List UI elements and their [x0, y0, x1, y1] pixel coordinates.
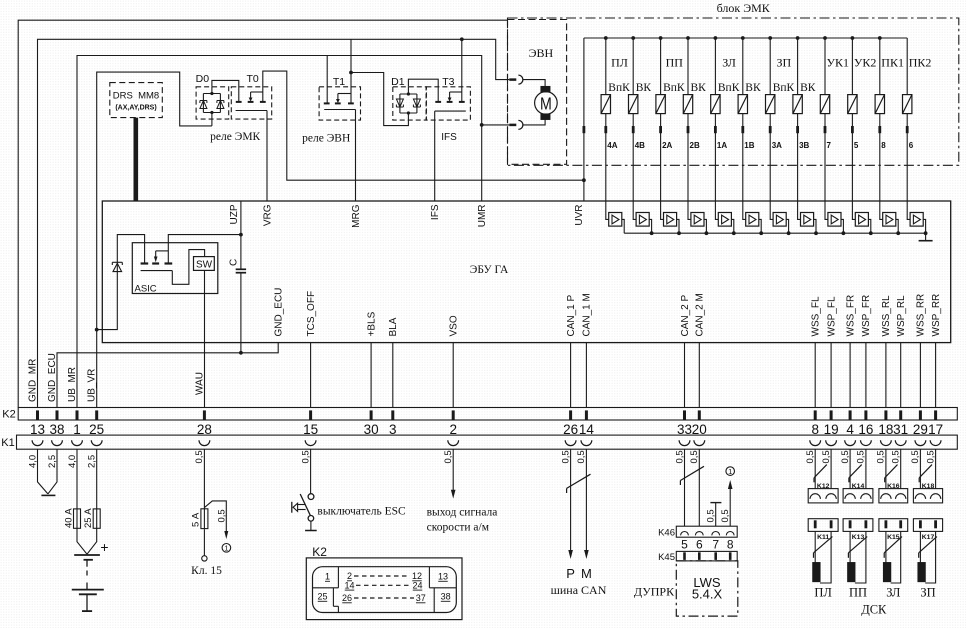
- pin tick valve 4B: [632, 126, 635, 133]
- svg-text:WSS_FL: WSS_FL: [811, 296, 822, 336]
- svg-text:0,5: 0,5: [194, 450, 205, 463]
- svg-text:2,5: 2,5: [47, 455, 58, 468]
- socket arc K1: [305, 440, 316, 445]
- svg-text:ПК2: ПК2: [909, 56, 932, 70]
- svg-text:24: 24: [412, 580, 422, 590]
- wire T3 channel to IFS pin: [435, 110, 466, 112]
- svg-text:ASIC: ASIC: [135, 284, 157, 295]
- svg-text:WSP_RR: WSP_RR: [931, 294, 942, 337]
- twisted pair mark K16: [885, 465, 898, 478]
- wire pin2 speed signal output: [452, 449, 454, 490]
- svg-text:IFS: IFS: [430, 204, 441, 220]
- wire VSO to K2 pin 2: [452, 343, 454, 408]
- svg-text:D1: D1: [391, 76, 405, 88]
- svg-text:14: 14: [344, 580, 354, 590]
- svg-text:выход сигнала: выход сигнала: [427, 507, 498, 519]
- switch SW block: [194, 257, 215, 271]
- connector K14: [843, 489, 873, 503]
- wire CAN_1 M to K2 pin 14: [585, 343, 587, 408]
- wire WSS_FL to K2 pin 8: [814, 343, 816, 408]
- svg-text:K45: K45: [658, 552, 675, 563]
- twisted pair mark CAN: [567, 474, 591, 488]
- svg-text:GND_ECU: GND_ECU: [274, 288, 285, 337]
- wire ПП sensor pair: [849, 449, 851, 488]
- svg-text:ПК1: ПК1: [881, 56, 904, 70]
- connector K2 row: [18, 408, 957, 421]
- svg-text:26: 26: [342, 593, 352, 603]
- capacitor C: [236, 268, 246, 270]
- wire CAN_2 M to K46: [698, 449, 700, 526]
- svg-text:+BLS: +BLS: [366, 311, 377, 336]
- svg-text:0,5: 0,5: [891, 450, 902, 463]
- connector K45: [676, 551, 737, 561]
- fuse 25A: [93, 509, 100, 528]
- svg-text:WSP_RL: WSP_RL: [896, 295, 907, 337]
- svg-text:ВпК: ВпК: [773, 82, 795, 94]
- pin tick valve 5: [851, 126, 854, 133]
- svg-text:UB_MR: UB_MR: [67, 367, 78, 402]
- pin tick K2-17: [934, 410, 937, 419]
- wire WSS_RR to K2 pin 29: [919, 343, 921, 408]
- svg-text:УК1: УК1: [827, 56, 850, 70]
- svg-text:VRG: VRG: [262, 204, 273, 226]
- wire CAN_2 P to K46: [684, 449, 686, 526]
- wire CAN_1 P: [570, 449, 572, 551]
- wheel speed sensor ЗЛ: [884, 563, 891, 582]
- svg-text:BLA: BLA: [388, 317, 399, 336]
- svg-text:ВК: ВК: [691, 82, 707, 94]
- wire T1 channel to MRG: [324, 109, 355, 111]
- wire pin1 to fuse 40A: [76, 449, 78, 509]
- driver U8: [798, 201, 801, 219]
- socket arc K1: [845, 440, 856, 445]
- wire T3 drain to GND_MR bus: [461, 39, 463, 102]
- svg-text:T3: T3: [442, 76, 454, 88]
- wire UB_VR: [97, 72, 212, 407]
- pin row dashes: [354, 575, 410, 577]
- pin tick K2-26: [569, 410, 572, 419]
- socket arc K1: [826, 440, 837, 445]
- pin tick K2-20: [698, 410, 701, 419]
- svg-text:ДСК: ДСК: [861, 603, 887, 617]
- svg-text:MRG: MRG: [351, 204, 362, 228]
- svg-text:0,5: 0,5: [805, 450, 816, 463]
- pin tick valve 1A: [714, 126, 717, 133]
- driver U3: [661, 201, 664, 219]
- svg-text:3A: 3A: [772, 141, 782, 150]
- svg-text:8: 8: [727, 538, 734, 552]
- wire pin25 to fuse 25A: [96, 449, 98, 509]
- diode pair D0: [196, 87, 229, 119]
- svg-text:0,5: 0,5: [576, 450, 587, 463]
- wire GND_MR bus: [38, 39, 510, 407]
- socket arc K1: [881, 440, 892, 445]
- svg-text:0,5: 0,5: [443, 450, 454, 463]
- pin tick K2-29: [919, 410, 922, 419]
- svg-text:ЗП: ЗП: [920, 585, 935, 599]
- connector K1 row: [17, 435, 958, 449]
- wire DRS MM8 heavy link to ECU: [134, 118, 139, 201]
- svg-text:4B: 4B: [635, 141, 645, 150]
- svg-text:0,5: 0,5: [821, 450, 832, 463]
- wire motor lower lead: [523, 119, 545, 125]
- pin tick valve 1B: [741, 126, 744, 133]
- svg-text:IFS: IFS: [441, 132, 457, 143]
- driver U6: [743, 201, 746, 219]
- svg-text:ЗЛ: ЗЛ: [886, 585, 901, 599]
- pin tick K2-3: [391, 410, 394, 419]
- solenoid valve 8: [878, 36, 882, 40]
- svg-text:13: 13: [438, 572, 448, 582]
- solenoid valve 2B: [686, 36, 690, 40]
- pin tick K2-14: [585, 410, 588, 419]
- socket arc K1: [861, 440, 872, 445]
- svg-text:0,5: 0,5: [560, 450, 571, 463]
- wire WSP_RL to K2 pin 31: [900, 343, 902, 408]
- connector K17: [913, 519, 942, 532]
- transistor T0 (EMK relay): [231, 87, 271, 119]
- svg-text:ВпК: ВпК: [608, 82, 630, 94]
- svg-text:ЗЛ: ЗЛ: [722, 56, 736, 70]
- svg-text:25 А: 25 А: [83, 508, 94, 528]
- solenoid valve 6: [906, 38, 908, 95]
- driver U12: [907, 201, 910, 219]
- diode VD internal: [113, 263, 122, 271]
- svg-text:ДУПРК: ДУПРК: [634, 585, 675, 599]
- svg-text:0,5: 0,5: [876, 450, 887, 463]
- valve supply bus UVR: [584, 37, 907, 39]
- contact lower (socket): [518, 120, 522, 129]
- svg-text:WSP_FL: WSP_FL: [826, 296, 837, 336]
- svg-text:ЭБУ ГА: ЭБУ ГА: [470, 264, 509, 276]
- connector K12: [808, 489, 838, 503]
- pin tick valve 6: [906, 126, 909, 133]
- svg-text:0,5: 0,5: [856, 450, 867, 463]
- socket arc K1: [565, 440, 576, 445]
- svg-text:CAN_2 P: CAN_2 P: [680, 294, 691, 336]
- driver U5: [715, 201, 718, 219]
- driver output bus: [624, 232, 925, 234]
- EVN enclosure (dashed): [508, 20, 567, 165]
- wire TCS_OFF to K2 pin 15: [310, 343, 312, 408]
- driver U4: [688, 201, 691, 219]
- socket arc K1: [448, 440, 459, 445]
- svg-text:УК2: УК2: [854, 56, 877, 70]
- svg-text:M: M: [581, 566, 592, 581]
- svg-text:ВпК: ВпК: [663, 82, 685, 94]
- svg-text:37: 37: [416, 593, 426, 603]
- contact upper (socket): [518, 75, 523, 84]
- svg-text:5.4.X: 5.4.X: [692, 587, 723, 602]
- twisted pair mark K14: [849, 465, 862, 478]
- wire GND_ECU: [57, 343, 278, 408]
- wheel speed sensor ЗП: [918, 563, 925, 582]
- wire UB_MR bus: [77, 56, 509, 408]
- driver U1: [606, 201, 609, 219]
- pin tick K2-13: [36, 410, 39, 419]
- solenoid valve 4A: [604, 36, 608, 40]
- svg-text:WSS_FR: WSS_FR: [845, 295, 856, 337]
- wire K46-7 shield stub: [715, 503, 717, 527]
- battery GB: [74, 554, 100, 556]
- svg-text:K2: K2: [2, 409, 15, 421]
- pin tick K2-19: [830, 410, 833, 419]
- socket arc K1: [52, 440, 63, 445]
- twisted pair mark K15: [884, 537, 902, 553]
- svg-text:K13: K13: [852, 534, 865, 541]
- wire WSP_FL to K2 pin 19: [830, 343, 832, 408]
- svg-text:4,0: 4,0: [27, 455, 38, 468]
- svg-text:K1: K1: [1, 437, 14, 449]
- driver U7: [770, 201, 773, 219]
- svg-text:реле ЭМК: реле ЭМК: [210, 131, 260, 143]
- svg-text:UZP: UZP: [229, 204, 240, 224]
- svg-text:0,5: 0,5: [910, 450, 921, 463]
- socket arc K1: [895, 440, 906, 445]
- wire CAN_1 M: [585, 449, 587, 551]
- twisted pair mark K18: [919, 465, 932, 478]
- svg-text:ЭВН: ЭВН: [529, 46, 554, 60]
- solenoid valve 3A: [768, 36, 772, 40]
- svg-text:0,5: 0,5: [720, 509, 731, 522]
- svg-text:5: 5: [854, 141, 859, 150]
- svg-text:K11: K11: [817, 534, 829, 541]
- svg-text:CAN_1 P: CAN_1 P: [566, 294, 577, 336]
- svg-text:ВпК: ВпК: [718, 82, 740, 94]
- wire ASIC to SW: [172, 250, 204, 285]
- wire WSS_FR to K2 pin 4: [849, 343, 851, 408]
- socket arc K1: [91, 440, 102, 445]
- svg-text:5 А: 5 А: [191, 512, 202, 527]
- svg-text:4A: 4A: [607, 141, 617, 150]
- wire T0 channel to VRG: [236, 110, 267, 112]
- connector K2 face view: [306, 558, 462, 620]
- svg-text:1: 1: [224, 544, 228, 553]
- transistor T1 (EVN relay): [319, 87, 360, 120]
- wire pin13 to chassis ground: [38, 449, 48, 494]
- svg-text:0,5: 0,5: [705, 509, 716, 522]
- svg-text:выключатель ESC: выключатель ESC: [317, 506, 406, 518]
- wire WSS_RL to K2 pin 18: [885, 343, 887, 408]
- wire D0 top to T0 left terminal: [212, 80, 239, 102]
- socket arc K1: [915, 440, 926, 445]
- svg-text:WSS_RR: WSS_RR: [916, 294, 927, 337]
- pin tick K2-30: [370, 410, 373, 419]
- pin tick K2-8: [814, 410, 817, 419]
- wire UB_VR branch to internal diode: [97, 235, 145, 330]
- transistor in ASIC: [141, 262, 149, 264]
- svg-text:WSP_FR: WSP_FR: [861, 295, 872, 337]
- svg-text:блок ЭМК: блок ЭМК: [717, 1, 771, 15]
- wire BLA to K2 pin 3: [392, 343, 394, 408]
- socket arc K1: [72, 440, 83, 445]
- transistor T3 (IFS): [426, 87, 470, 120]
- svg-text:6: 6: [909, 141, 914, 150]
- wire pin38 to chassis ground: [48, 449, 57, 494]
- pin UZP internal wire: [240, 201, 242, 269]
- pushbutton actuator icon: [291, 502, 293, 513]
- pin tick valve 4A: [604, 126, 607, 133]
- svg-text:4,0: 4,0: [67, 455, 78, 468]
- fuse 5A: [201, 509, 208, 529]
- svg-text:DRS MM8: DRS MM8: [113, 91, 159, 102]
- svg-text:Кл. 15: Кл. 15: [191, 565, 222, 577]
- svg-text:2B: 2B: [690, 141, 700, 150]
- svg-text:3B: 3B: [799, 141, 809, 150]
- connector K16: [879, 489, 908, 503]
- svg-text:UVR: UVR: [574, 205, 585, 226]
- wire ПЛ sensor pair: [814, 449, 816, 488]
- wire K11 to sensor: [814, 531, 816, 562]
- svg-text:GND_MR: GND_MR: [27, 359, 38, 402]
- wire CAN_2 P to K2 pin 33: [684, 343, 686, 408]
- pin tick K2-1: [76, 410, 79, 419]
- wire motor upper lead: [523, 80, 545, 87]
- wire UMR from motor low side: [481, 125, 483, 201]
- svg-text:6: 6: [696, 538, 703, 552]
- svg-text:1: 1: [728, 467, 732, 476]
- wheel speed sensor ПЛ: [813, 563, 820, 582]
- socket arc K1: [581, 440, 592, 445]
- pin tick K2-31: [899, 410, 902, 419]
- svg-text:0,5: 0,5: [300, 450, 311, 463]
- pin tick UVR harness: [583, 126, 586, 133]
- svg-text:K46: K46: [658, 528, 675, 539]
- svg-text:2A: 2A: [662, 141, 672, 150]
- valve block boundary (dash-dot): [508, 18, 959, 165]
- switch ESC (contact): [308, 494, 314, 500]
- svg-text:5: 5: [681, 538, 688, 552]
- twisted pair mark K12: [814, 465, 827, 478]
- solenoid valve 2A: [659, 36, 663, 40]
- chassis ground bar: [41, 494, 55, 496]
- twisted pair mark K17: [919, 537, 937, 553]
- pin tick K2-33: [683, 410, 686, 419]
- socket arc K1: [810, 440, 821, 445]
- driver U10: [852, 201, 855, 219]
- connector K15: [879, 519, 908, 532]
- wire D1 bottom to T1 drain: [351, 73, 408, 126]
- wire T1 drain to GND_MR bus: [350, 39, 352, 103]
- wire CAN_1 P to K2 pin 26: [570, 343, 572, 408]
- ASIC block: [132, 243, 218, 294]
- wire K17 to sensor: [919, 531, 921, 562]
- solenoid valve 1A: [714, 36, 718, 40]
- svg-text:ПЛ: ПЛ: [611, 56, 628, 70]
- wire K15 to sensor: [885, 531, 887, 562]
- wire pin15 to ESC switch: [310, 449, 312, 493]
- solenoid valve 5: [851, 36, 855, 40]
- pin tick K2-18: [884, 410, 887, 419]
- wire ЗЛ sensor pair: [885, 449, 887, 488]
- wire D0 bottom stub: [211, 119, 213, 126]
- pin tick valve 7: [824, 126, 827, 133]
- svg-text:TCS_OFF: TCS_OFF: [306, 291, 317, 337]
- pin tick K2-16: [864, 410, 867, 419]
- wire ЗП sensor pair: [919, 449, 921, 488]
- wire WAU from SW: [204, 270, 206, 407]
- fuse 40A: [74, 509, 81, 528]
- solenoid valve 4B: [631, 36, 635, 40]
- svg-text:40 А: 40 А: [63, 508, 74, 528]
- driver U9: [825, 201, 828, 219]
- svg-text:0,5: 0,5: [216, 509, 227, 522]
- svg-text:C: C: [229, 259, 240, 266]
- wire D1 top to T3 left terminal: [408, 79, 438, 102]
- svg-text:UMR: UMR: [477, 205, 488, 228]
- connector K46: [676, 526, 737, 537]
- svg-text:ВК: ВК: [745, 82, 761, 94]
- pin tick valve 2B: [687, 126, 690, 133]
- wires join to battery plus: [77, 528, 87, 554]
- svg-text:скорости а/м: скорости а/м: [427, 522, 490, 534]
- svg-text:0,5: 0,5: [674, 450, 685, 463]
- pin tick K2-2: [452, 410, 455, 419]
- svg-text:ЗП: ЗП: [777, 56, 792, 70]
- wire WSP_FR to K2 pin 16: [865, 343, 867, 408]
- svg-text:UB_VR: UB_VR: [87, 369, 98, 402]
- ground (driver bus): [925, 233, 927, 241]
- wire pin28 to Kl.15: [203, 449, 205, 507]
- ECU box ЭБУ ГА: [102, 201, 950, 343]
- driver U2: [633, 201, 636, 219]
- pin tick K2-25: [95, 410, 98, 419]
- svg-text:M: M: [540, 94, 552, 114]
- twisted pair mark K11: [814, 537, 833, 553]
- solenoid valve 1B: [741, 36, 745, 40]
- socket arc K1: [199, 440, 210, 445]
- pin tick valve 8: [878, 126, 881, 133]
- wire branch to indicator 1: [204, 501, 226, 532]
- connector K13: [843, 519, 873, 532]
- svg-text:7: 7: [827, 141, 832, 150]
- svg-text:T0: T0: [246, 73, 258, 85]
- solenoid valve 7: [823, 36, 827, 40]
- pin tick K2-15: [309, 410, 312, 419]
- pin tick valve 2A: [659, 126, 662, 133]
- svg-text:P: P: [566, 566, 575, 581]
- svg-text:GND_ECU: GND_ECU: [47, 353, 58, 402]
- svg-text:WSS_RL: WSS_RL: [881, 295, 892, 337]
- svg-text:T1: T1: [333, 76, 345, 88]
- wire CAN_2 M to K2 pin 20: [698, 343, 700, 408]
- svg-text:0,5: 0,5: [925, 450, 936, 463]
- solenoid valve 3B: [796, 36, 800, 40]
- svg-text:ВК: ВК: [636, 82, 652, 94]
- svg-text:SW: SW: [196, 259, 213, 270]
- svg-text:реле ЭВН: реле ЭВН: [302, 133, 350, 145]
- socket arc K1: [679, 440, 690, 445]
- indicator circle 1: [222, 544, 231, 553]
- driver U11: [880, 201, 883, 219]
- svg-text:ПЛ: ПЛ: [814, 585, 832, 599]
- motor M: [535, 92, 558, 115]
- terminal Kl.15: [203, 530, 205, 556]
- svg-text:VSO: VSO: [449, 315, 460, 336]
- wire K13 to sensor: [849, 531, 851, 562]
- svg-text:25: 25: [317, 592, 327, 602]
- svg-text:ПП: ПП: [849, 585, 867, 599]
- svg-text:WAU: WAU: [195, 372, 206, 395]
- pin tick valve 3A: [769, 126, 772, 133]
- svg-text:7: 7: [712, 538, 719, 552]
- svg-text:8: 8: [881, 141, 886, 150]
- indicator circle 1 (LWS): [726, 467, 735, 476]
- socket arc K1: [694, 440, 705, 445]
- svg-text:CAN_2 M: CAN_2 M: [695, 293, 706, 336]
- connector K18: [913, 489, 942, 503]
- wire GND (outer) from K2 shell to EMK block: [18, 20, 507, 407]
